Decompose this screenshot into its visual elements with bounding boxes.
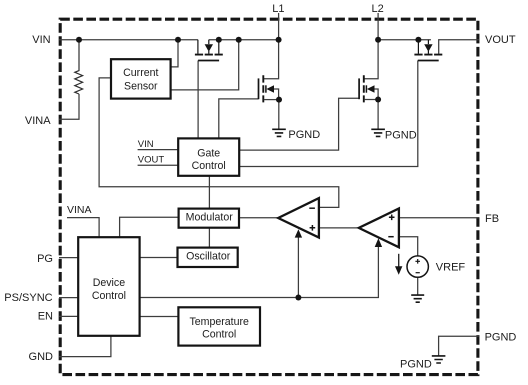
svg-text:Current: Current — [123, 67, 158, 79]
svg-text:Control: Control — [92, 290, 126, 302]
wire VINA to device control — [67, 218, 99, 238]
wire FB pin to comparator U2 — [399, 217, 479, 219]
wire Q1 gate to gate control — [197, 61, 199, 139]
wire gate control to Q3 gate — [239, 98, 359, 150]
svg-text:PGND: PGND — [485, 332, 517, 344]
wire gate control to Q4 gate — [239, 61, 417, 167]
node L2 — [375, 37, 381, 43]
wire Q2 gate to gate control — [219, 99, 259, 138]
wire VIN rail (VIN pin to PMOS Q1 source) — [59, 39, 198, 41]
box device control — [78, 237, 139, 336]
wire L1 lead — [264, 13, 279, 79]
arrowhead into comparator U1 — [295, 229, 302, 237]
wire VOUT segment (Q4 drain to VOUT pin) — [439, 40, 479, 54]
junction bias wire branch — [295, 295, 301, 301]
svg-text:PGND: PGND — [288, 129, 320, 141]
wire PG pin stub — [59, 257, 78, 259]
wire device control bias to comparators — [140, 246, 379, 297]
comparator U1 (PWM comparator) — [278, 198, 319, 237]
node L1 — [276, 37, 282, 43]
wire current sensor upper tap — [171, 40, 178, 67]
svg-text:VOUT: VOUT — [138, 154, 165, 165]
svg-text:Temperature: Temperature — [189, 316, 249, 328]
voltage source VREF — [407, 256, 465, 277]
svg-text:VINA: VINA — [67, 204, 92, 216]
wire L2 lead — [364, 13, 378, 79]
junction SW1/current sensor tap — [236, 37, 242, 43]
svg-text:Control: Control — [192, 160, 226, 172]
junction Q1 drain — [216, 37, 222, 43]
wire PGND pin — [439, 336, 479, 355]
junction VIN/current sensor — [175, 37, 181, 43]
box current sensor — [111, 59, 171, 98]
junction Q3 source/diode — [375, 97, 381, 103]
junction Q2 source/diode — [276, 97, 282, 103]
wire device control to modulator — [120, 217, 179, 237]
box oscillator — [178, 248, 238, 267]
transistor Q4 (boost rectifier PMOS) — [414, 40, 442, 61]
wire VREF to ground — [417, 277, 419, 294]
svg-text:PGND: PGND — [400, 358, 432, 370]
svg-text:VIN: VIN — [138, 139, 154, 150]
comparator U2 (error comparator) — [359, 209, 399, 248]
transistor Q1 (high-side buck PMOS) — [195, 40, 223, 61]
wire comparator U2 output to comparator U1 non-inverting input — [319, 227, 359, 229]
wire SW2 rail (L2 node to Q4) — [378, 39, 431, 41]
wire SW1 rail (Q1 drain to L1 node) — [209, 39, 279, 41]
wire gate control to modulator — [208, 176, 210, 209]
svg-text:VINA: VINA — [25, 115, 51, 127]
svg-text:Oscillator: Oscillator — [186, 251, 231, 263]
svg-text:Sensor: Sensor — [124, 81, 158, 93]
box modulator — [179, 209, 239, 228]
svg-text:Control: Control — [202, 328, 236, 340]
junction VIN/R1 — [76, 37, 82, 43]
box temperature control — [178, 307, 260, 345]
ground (VREF return) — [411, 295, 424, 302]
wire PS/SYNC pin stub — [59, 297, 78, 299]
wire GND pin to device control — [59, 336, 111, 357]
svg-text:GND: GND — [29, 351, 54, 363]
svg-text:VIN: VIN — [32, 34, 50, 46]
IC boundary dashed border — [60, 19, 478, 374]
resistor R1 (VIN to VINA) — [75, 40, 83, 94]
wire current sense signal (current sensor to comparator U1 inverting input) — [99, 78, 339, 208]
ground PGND (pin return) — [400, 356, 445, 370]
soft-start down arrow — [395, 254, 402, 275]
wire device control to oscillator — [140, 257, 178, 259]
ground PGND (Q3 source) — [371, 129, 416, 141]
wire branch arrow to comparator U1 — [297, 236, 299, 298]
wire modulator to oscillator — [208, 228, 210, 248]
wire modulator to comparator U1 output — [239, 217, 278, 219]
wire comparator U2 inverting input to VREF — [399, 237, 418, 256]
wire VIN input to gate control — [138, 149, 179, 151]
wire VINA pin — [59, 94, 79, 119]
box gate control U3 — [178, 138, 239, 175]
svg-text:EN: EN — [38, 311, 53, 323]
arrowhead into comparator U2 — [375, 238, 382, 247]
ground PGND (Q2 source) — [272, 129, 320, 141]
transistor Q2 (low-side buck NMOS) — [259, 75, 279, 129]
wire VOUT input to gate control — [138, 164, 179, 166]
svg-text:Device: Device — [93, 277, 125, 289]
wire EN pin stub — [59, 315, 78, 317]
transistor Q3 (boost NMOS) — [359, 75, 378, 129]
svg-text:VOUT: VOUT — [485, 34, 516, 46]
junction Q4 source — [415, 37, 421, 43]
wire device control to temperature control — [140, 316, 179, 318]
svg-text:VREF: VREF — [436, 262, 466, 274]
svg-text:PS/SYNC: PS/SYNC — [4, 292, 52, 304]
svg-text:FB: FB — [485, 213, 499, 225]
svg-text:PGND: PGND — [385, 129, 417, 141]
svg-text:Modulator: Modulator — [186, 212, 234, 224]
svg-text:Gate: Gate — [197, 147, 220, 159]
wire current sensor lower tap — [171, 40, 239, 90]
svg-text:PG: PG — [37, 253, 53, 265]
